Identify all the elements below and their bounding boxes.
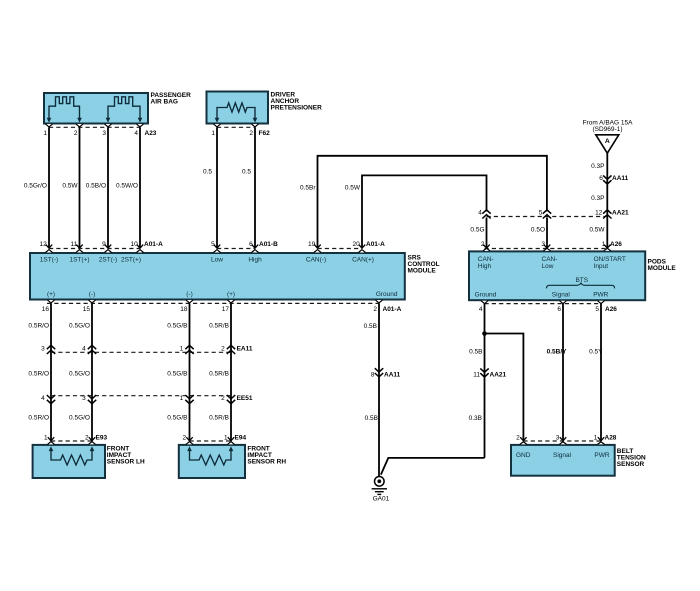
svg-text:SENSOR LH: SENSOR LH	[107, 459, 145, 466]
svg-text:2ST(-): 2ST(-)	[99, 257, 117, 264]
svg-text:PWR: PWR	[593, 291, 608, 298]
svg-text:EA11: EA11	[237, 346, 253, 353]
svg-text:1: 1	[180, 346, 184, 353]
svg-text:15: 15	[83, 306, 91, 313]
svg-text:(-): (-)	[186, 291, 193, 298]
svg-text:0.5R/B: 0.5R/B	[209, 322, 229, 329]
svg-text:0.5: 0.5	[242, 169, 251, 176]
svg-text:2: 2	[481, 241, 485, 248]
svg-text:2: 2	[74, 130, 78, 137]
svg-text:5: 5	[539, 209, 543, 216]
svg-text:3: 3	[41, 346, 45, 353]
svg-text:0.5Gr/O: 0.5Gr/O	[24, 183, 47, 190]
svg-text:1: 1	[602, 241, 606, 248]
svg-text:5: 5	[211, 241, 215, 248]
svg-text:A01-B: A01-B	[259, 241, 278, 248]
svg-text:PWR: PWR	[594, 452, 609, 459]
svg-text:Low: Low	[211, 257, 223, 264]
svg-text:12: 12	[39, 241, 47, 248]
svg-text:BTS: BTS	[575, 277, 588, 284]
svg-text:2: 2	[221, 395, 225, 402]
svg-text:0.5R/B: 0.5R/B	[209, 370, 229, 377]
svg-text:High: High	[248, 257, 262, 264]
svg-text:Signal: Signal	[553, 452, 572, 459]
svg-text:19: 19	[308, 241, 316, 248]
svg-text:2: 2	[85, 435, 89, 442]
svg-text:0.5W/O: 0.5W/O	[116, 183, 138, 190]
svg-text:MODULE: MODULE	[408, 268, 437, 275]
svg-text:CAN(-): CAN(-)	[306, 257, 326, 264]
svg-text:6: 6	[599, 175, 603, 182]
svg-text:4: 4	[478, 209, 482, 216]
svg-text:1: 1	[44, 435, 48, 442]
svg-text:0.5G/B: 0.5G/B	[167, 370, 187, 377]
svg-text:11: 11	[70, 241, 77, 248]
svg-text:F62: F62	[259, 130, 271, 137]
svg-text:0.5B/O: 0.5B/O	[86, 183, 106, 190]
svg-text:(-): (-)	[89, 291, 96, 298]
svg-text:SENSOR: SENSOR	[617, 461, 645, 468]
svg-text:0.5B/Y: 0.5B/Y	[547, 349, 568, 356]
svg-text:Input: Input	[594, 263, 609, 270]
svg-text:0.5R/B: 0.5R/B	[209, 415, 229, 422]
svg-text:3: 3	[102, 130, 106, 137]
svg-text:(+): (+)	[227, 291, 235, 298]
svg-text:0.5Y: 0.5Y	[589, 349, 603, 356]
svg-text:2ST(+): 2ST(+)	[121, 257, 141, 264]
svg-text:0.3B: 0.3B	[469, 415, 482, 422]
svg-text:Ground: Ground	[376, 291, 398, 298]
svg-text:A23: A23	[145, 130, 157, 137]
svg-text:0.3P: 0.3P	[591, 163, 604, 170]
svg-text:0.5W: 0.5W	[345, 184, 361, 191]
svg-text:AA11: AA11	[384, 371, 401, 378]
svg-text:(+): (+)	[47, 291, 55, 298]
svg-text:0.3P: 0.3P	[591, 195, 604, 202]
svg-text:0.5G/B: 0.5G/B	[167, 322, 187, 329]
svg-text:0.5B: 0.5B	[365, 415, 378, 422]
svg-text:4: 4	[82, 346, 86, 353]
svg-text:3: 3	[82, 395, 86, 402]
svg-text:1: 1	[180, 395, 184, 402]
svg-text:17: 17	[222, 306, 230, 313]
svg-text:A28: A28	[605, 435, 617, 442]
svg-text:18: 18	[180, 306, 188, 313]
svg-text:1ST(-): 1ST(-)	[40, 257, 58, 264]
svg-text:GND: GND	[516, 452, 531, 459]
svg-text:2: 2	[221, 346, 225, 353]
svg-text:0.5G/O: 0.5G/O	[69, 370, 90, 377]
svg-text:A26: A26	[605, 306, 617, 313]
svg-text:AA11: AA11	[612, 175, 629, 182]
svg-text:4: 4	[41, 395, 45, 402]
svg-text:0.5Br: 0.5Br	[300, 184, 316, 191]
svg-text:(SD969-1): (SD969-1)	[593, 126, 623, 133]
svg-text:Low: Low	[542, 263, 554, 270]
svg-text:12: 12	[595, 209, 603, 216]
svg-text:1: 1	[224, 435, 228, 442]
svg-text:8: 8	[371, 371, 375, 378]
svg-text:A26: A26	[610, 241, 622, 248]
svg-text:0.5O: 0.5O	[531, 227, 545, 234]
svg-text:0.5W: 0.5W	[589, 227, 605, 234]
svg-text:CAN(+): CAN(+)	[352, 257, 374, 264]
svg-text:E94: E94	[235, 435, 247, 442]
svg-text:2: 2	[373, 306, 377, 313]
svg-text:0.5B: 0.5B	[469, 349, 482, 356]
svg-text:6: 6	[557, 306, 561, 313]
svg-text:2: 2	[182, 435, 186, 442]
svg-text:1ST(+): 1ST(+)	[69, 257, 89, 264]
svg-text:PRETENSIONER: PRETENSIONER	[271, 105, 323, 112]
svg-text:9: 9	[102, 241, 106, 248]
svg-text:2: 2	[249, 130, 253, 137]
svg-text:2: 2	[516, 435, 520, 442]
svg-text:6: 6	[249, 241, 253, 248]
svg-text:0.5G/O: 0.5G/O	[69, 415, 90, 422]
svg-text:MODULE: MODULE	[648, 265, 677, 272]
svg-text:GA01: GA01	[373, 496, 390, 503]
svg-text:Ground: Ground	[475, 291, 497, 298]
svg-text:A01-A: A01-A	[144, 241, 163, 248]
svg-text:1: 1	[594, 435, 598, 442]
svg-text:E93: E93	[96, 435, 108, 442]
svg-text:11: 11	[473, 371, 480, 378]
svg-text:EE51: EE51	[237, 395, 253, 402]
svg-text:1: 1	[211, 130, 215, 137]
svg-text:0.5R/O: 0.5R/O	[28, 415, 49, 422]
svg-text:10: 10	[130, 241, 138, 248]
svg-text:5: 5	[595, 306, 599, 313]
svg-text:High: High	[478, 263, 492, 270]
svg-text:0.5G/O: 0.5G/O	[69, 322, 90, 329]
svg-text:16: 16	[42, 306, 50, 313]
svg-text:A01-A: A01-A	[383, 306, 402, 313]
svg-text:A: A	[605, 138, 610, 145]
svg-text:3: 3	[556, 435, 560, 442]
svg-text:0.5G/B: 0.5G/B	[167, 415, 187, 422]
svg-text:4: 4	[134, 130, 138, 137]
svg-text:20: 20	[352, 241, 360, 248]
svg-text:0.5R/O: 0.5R/O	[28, 322, 49, 329]
svg-text:3: 3	[541, 241, 545, 248]
svg-text:AA21: AA21	[612, 209, 629, 216]
svg-text:A01-A: A01-A	[366, 241, 385, 248]
svg-text:0.5B: 0.5B	[364, 323, 377, 330]
svg-text:0.5: 0.5	[203, 169, 212, 176]
svg-text:Signal: Signal	[552, 291, 571, 298]
svg-text:1: 1	[43, 130, 47, 137]
svg-text:0.5R/O: 0.5R/O	[28, 370, 49, 377]
svg-text:AA21: AA21	[490, 371, 507, 378]
svg-text:AIR BAG: AIR BAG	[151, 98, 178, 105]
svg-text:SENSOR RH: SENSOR RH	[247, 459, 286, 466]
svg-text:0.5G: 0.5G	[470, 227, 484, 234]
svg-text:0.5W: 0.5W	[62, 183, 78, 190]
svg-text:4: 4	[479, 306, 483, 313]
